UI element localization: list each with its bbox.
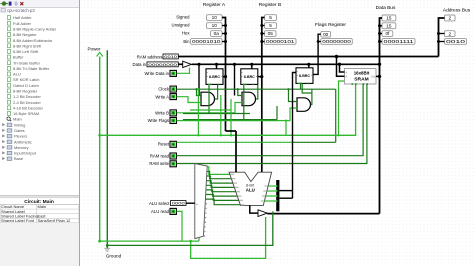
properties header Circuit: Main [0,198,80,204]
wire flags loop bottom [279,197,292,199]
property row Shared Label Font [0,218,79,223]
probe RegA signed 10 [207,15,223,21]
svg-text:8-BRC: 8-BRC [209,75,220,79]
decoder 4-16 [195,164,207,239]
wire power bottom rail [100,240,199,242]
wire write-data-in control [177,68,190,74]
tree folder Input/Output [2,151,37,156]
node data/dataline junction [378,63,381,66]
tree item 8-Bit Right Shift [8,43,42,48]
wire RegB probe stub [262,25,265,27]
input pin Write Data in [170,70,176,76]
tree item 8-Bit Adder/Subtractor [8,38,54,43]
svg-text:15: 15 [386,24,392,29]
tree root item cpu-scratch-p3 [1,9,5,12]
input Data in value 00000000 [147,62,178,67]
wire decoder out 6 [206,195,239,201]
probe Flags hex 00 [321,31,331,37]
ground symbol [104,248,110,251]
ALU right pin labels [261,186,268,201]
svg-text:Data Bus: Data Bus [376,5,396,11]
input ALU select value 0000 [171,201,187,206]
svg-text:Bin: Bin [183,39,190,44]
wire power loop down right [191,217,266,258]
svg-text:4-16 Bit Decoder: 4-16 Bit Decoder [13,105,44,110]
tree item 8-Bit Ripple-Carry Adder [8,26,58,31]
wire SRAM address in [337,57,345,77]
svg-text:SR NOR Latch: SR NOR Latch [13,77,39,82]
wire mesh v220 bright [220,95,222,135]
wire RegB probe stub [262,33,265,35]
wire clock line [177,88,336,90]
probe RegB signed 5 [265,15,277,21]
svg-text:16x8Bit: 16x8Bit [354,70,370,75]
wire busA jog [226,130,237,132]
svg-text:0f: 0f [385,31,390,36]
probe AddrBus hex 2 [445,31,456,37]
node addr junction [335,55,338,58]
wire RegB probe stub [262,41,265,43]
svg-text:8-Bit Tri-State Buffer: 8-Bit Tri-State Buffer [13,66,50,71]
wire DataBus probe stub [380,41,383,43]
svg-text:SansSerif Plain 12: SansSerif Plain 12 [38,218,72,223]
svg-text:A: A [346,70,348,74]
wire RegA probe stub [222,33,226,35]
sidebar divider [79,0,81,266]
register A (8-BRC) [206,69,223,85]
svg-text:2: 2 [448,31,451,36]
wire flags reg left vertical [293,73,297,199]
input RAM address value 0010 [163,54,178,59]
tree item 8-Bit Tri-State Buffer [8,66,50,71]
svg-text:1-2 Bit Decoder: 1-2 Bit Decoder [13,94,41,99]
wire RAM write [177,84,367,164]
svg-text:8-BRC: 8-BRC [244,75,255,79]
wire Write B [177,103,242,113]
wire data-in to buffer [178,63,182,65]
svg-text:Base: Base [14,156,24,161]
node sram data junction [338,63,341,66]
power symbol [97,52,103,56]
tree folder Wiring [2,122,25,127]
svg-text:RAM read: RAM read [150,153,170,158]
wire regA out to bus [223,76,226,78]
svg-text:RAM address: RAM address [137,54,163,59]
wire ground vertical [106,50,108,248]
wire decoder enable stub [198,238,200,241]
wire regB data stub [251,64,253,69]
svg-text:0a: 0a [214,31,220,36]
toolbar strip [0,0,80,8]
svg-text:Write Data in: Write Data in [145,71,170,76]
wire DataBus probe stub [380,33,383,35]
input pin RAM read [170,153,176,159]
sidebar background [0,0,80,266]
svg-text:Input/Output: Input/Output [14,151,37,156]
wire decoder out 3 [206,181,234,188]
tree item Full Adder [8,21,32,26]
svg-text:0000: 0000 [172,201,186,206]
wire decoder out 1 [207,171,231,178]
svg-text:Address Bus: Address Bus [443,7,471,13]
ALU flag stubs [268,185,276,187]
splitter bar [0,196,80,199]
wire ground bottom rail [107,211,272,245]
tree item 8-Bit Left Shift [8,49,40,54]
wire flags loop top [279,190,292,192]
svg-text:Data in: Data in [133,62,147,67]
tree item Tri-State Buffer [8,60,41,65]
wire power to SRAM left pin [339,81,345,135]
svg-text:ALU read: ALU read [151,209,170,214]
node power loop branch [189,240,192,243]
wire decoder out 2 [207,176,233,183]
probe RegA bin 00001010 [191,39,223,45]
panel area below table [0,223,79,266]
probe RegB bin 00000101 [265,39,297,45]
wire gate F out [311,89,312,104]
flags collection bar [276,180,279,211]
wire RegA probe stub [222,41,226,43]
svg-text:ALU: ALU [246,188,255,193]
tree folder Gates [2,128,24,133]
svg-text:Write A: Write A [155,94,169,99]
svg-text:cpu-scratch-p3: cpu-scratch-p3 [7,8,35,13]
svg-text:Arithmetic: Arithmetic [14,139,32,144]
toolbar icon: poke tool [2,1,6,5]
svg-text:Hex: Hex [182,31,190,36]
toolbar icon: edit tool [9,2,12,6]
svg-text:ALU: ALU [13,72,21,77]
wire SRAM out [376,75,380,77]
wire reset bright part [177,141,293,143]
probe RegA hex 0a [211,31,223,37]
tree item SR NOR Latch [8,77,40,82]
tree folder Arithmetic [2,139,32,144]
wire RegB probe bus [262,18,265,173]
wire AddrBus probe stub [439,33,445,35]
wire flags data stub [308,64,310,68]
wire DataBus probe stub [380,25,383,27]
svg-text:Out: Out [371,75,376,79]
svg-text:Write Flags: Write Flags [148,118,169,123]
svg-text:SRAM: SRAM [354,76,368,82]
svg-text:15: 15 [386,16,392,21]
svg-text:Gates: Gates [14,128,25,133]
wire flags reg pin to clock [300,83,302,89]
wire regB out to bus [258,76,262,78]
probe AddrBus signed 2 [445,15,456,21]
tree folder Memory [2,145,28,150]
svg-text:Gated D Latch: Gated D Latch [13,83,39,88]
wire Flags probe stub [318,41,321,43]
svg-text:5: 5 [269,15,272,20]
svg-text:RAM write: RAM write [149,161,169,166]
register B (8-BRC) [241,69,258,85]
svg-text:8-Bit Right Shift: 8-Bit Right Shift [13,43,42,48]
svg-text:8-Bit Adder/Subtractor: 8-Bit Adder/Subtractor [13,38,53,43]
svg-text:00001111: 00001111 [384,39,415,44]
svg-text:2: 2 [448,16,451,21]
wire mesh v231 bright [230,99,232,135]
probe Flags bin 00000000 [321,39,353,45]
svg-text:Clock: Clock [158,87,170,92]
wire RegA probe stub [222,25,226,27]
wire mesh h110 [190,109,231,111]
wire decoder out 5 [206,190,237,196]
wire regB bottom out down [243,85,245,120]
svg-text:8-Bit: 8-Bit [246,182,255,187]
node ground corner [106,244,109,247]
wire Write A [177,97,201,103]
property row Shared Label [0,209,79,214]
wire Data Bus vertical [380,18,383,214]
wire SRAM data in [340,64,345,72]
svg-text:Register A: Register A [203,2,226,8]
svg-text:Plexers: Plexers [14,134,27,139]
wire Write Flags [177,108,297,121]
svg-text:Tri-State Buffer: Tri-State Buffer [13,60,41,65]
svg-text:2-4 Bit Decoder: 2-4 Bit Decoder [13,100,41,105]
tree item 4-16 Bit Decoder [8,105,44,110]
wire decoder out 4 [206,185,236,191]
svg-text:10: 10 [212,23,218,28]
tree item 2-4 Bit Decoder [8,100,42,105]
tree item Main [7,117,22,122]
svg-text:Unsigned: Unsigned [172,23,191,28]
wire power rail y135 [100,84,356,135]
AND gate B [242,92,256,106]
svg-text:Power: Power [87,46,100,51]
svg-text:Wiring: Wiring [14,122,25,127]
input pin ALU read [170,208,176,214]
svg-text:00: 00 [323,32,329,37]
wire ALU read [177,211,182,241]
svg-text:8-Bit Register: 8-Bit Register [13,89,38,94]
wire regA bottom out down [208,85,210,114]
wire AddrBus probe stub2 [439,41,445,43]
SRAM bottom pins [351,83,353,85]
wire write flags branch down [285,121,287,136]
toolbar icon: text tool [15,2,18,6]
svg-text:Full Adder: Full Adder [13,21,32,26]
wire clock drop gate B [238,89,242,95]
wire decoder out 7 [205,199,240,205]
svg-text:16 Byte SRAM: 16 Byte SRAM [13,111,39,116]
svg-text:05: 05 [268,31,274,36]
tri-state buffer U2 (ALU read) [258,210,267,217]
probe RegB hex 05 [265,31,277,37]
tree item 8-Bit Negator [8,32,38,37]
tree item 8-Bit Register [8,89,38,94]
probe RegA unsigned 10 [207,23,223,29]
tree item Buffer [8,55,25,60]
properties table [0,204,79,223]
wire mesh h119 [183,119,277,121]
wire data line (y64.3) [192,63,380,65]
svg-text:Memory: Memory [14,145,28,150]
svg-text:Ground: Ground [106,254,122,259]
svg-text:Main: Main [13,117,22,122]
wire RegA probe bus [222,18,226,132]
wire gate A out [215,85,218,99]
node rail v231 [230,134,232,136]
svg-text:8-Bit Left Shift: 8-Bit Left Shift [13,49,39,54]
svg-text:8-Bit Ripple-Carry Adder: 8-Bit Ripple-Carry Adder [13,26,57,31]
AND gate Flags [297,98,311,112]
svg-text:10: 10 [212,15,218,20]
tree folder Base [2,156,24,161]
svg-text:A: A [346,75,348,79]
tri-state buffer U1 (write data) [183,61,192,67]
probe AddrBus bin 0010 [445,39,467,45]
wire mesh v198 bright [197,89,199,135]
svg-text:Write B: Write B [155,110,169,115]
tree item Half Adder [8,15,33,20]
wire regA data stub [216,64,218,69]
svg-text:ALU select: ALU select [149,201,170,206]
wire mesh h113 [183,113,250,115]
input pin Reset [170,141,176,147]
input pin RAM write [170,161,176,167]
probe DataBus unsigned 15 [382,23,396,29]
node power rail start [98,134,101,137]
node power bottom corner [98,240,101,243]
wire regB input left stub [234,64,236,95]
SRAM 16x8Bit component [345,69,377,85]
svg-text:0010: 0010 [164,54,178,59]
svg-text:8-Bit Negator: 8-Bit Negator [13,32,37,37]
wire Address Bus vertical [439,18,445,57]
svg-text:Flags Register: Flags Register [315,22,346,28]
wire power vertical [99,57,101,242]
svg-text:Shared Label Font: Shared Label Font [1,218,35,223]
ALU 8-bit component [229,172,272,205]
wire mesh v277 [276,106,278,120]
svg-text:5: 5 [269,23,272,28]
svg-text:8-BRC: 8-BRC [299,74,310,78]
wire gate B out [256,85,258,99]
property row Shared Label Facing [0,213,79,218]
tree folder Plexers [2,134,27,139]
probe DataBus signed 15 [382,15,396,21]
wire ALU select to decoder [186,202,195,204]
wire decoder out 0 [207,167,230,175]
svg-text:Main: Main [38,204,47,209]
probe DataBus hex 0f [382,31,393,37]
property row Circuit Name [0,204,79,209]
wire ALU input A [235,131,237,172]
probe RegB unsigned 5 [265,23,277,29]
wire clock drop gate F [289,89,298,101]
wire RAM read [177,84,364,156]
wire regA input left stub [198,64,200,95]
svg-text:00000101: 00000101 [266,39,295,44]
wire RAM address bus (y56.5) [178,56,438,58]
AND gate A [201,92,215,106]
wire flags reg pin2 down [302,83,312,93]
wire ALU out to data bus [267,213,379,215]
tree item ALU [8,72,21,77]
svg-text:Register B: Register B [259,2,281,8]
input pin Write B [170,110,176,116]
input pin Write A [170,94,176,100]
svg-text:00000000: 00000000 [148,62,178,67]
wire reset dark part [293,141,336,143]
probe DataBus bin 00001111 [382,39,415,45]
svg-text:Buffer: Buffer [13,55,24,60]
svg-text:00001010: 00001010 [192,39,221,44]
flags register (8-BRC) [296,68,313,84]
wire clock corner down right [335,89,337,142]
wire Flags probe bus [313,34,321,74]
wire clock drop gate A [197,89,202,95]
svg-text:00000000: 00000000 [322,39,351,44]
tree item 16 Byte SRAM [8,111,40,116]
svg-text:Signed: Signed [176,15,190,20]
toolbar icon: delete X [20,2,23,5]
tree item 1-2 Bit Decoder [8,94,42,99]
input pin Write Flags [170,118,176,124]
input pin Clock [170,86,176,92]
svg-text:0010: 0010 [446,39,466,44]
svg-text:Reset: Reset [158,142,170,147]
decoder unconnected pins [206,203,208,205]
tree item Gated D Latch [8,83,39,88]
svg-text:Half Adder: Half Adder [13,15,32,20]
wire ALU out down [250,205,258,213]
